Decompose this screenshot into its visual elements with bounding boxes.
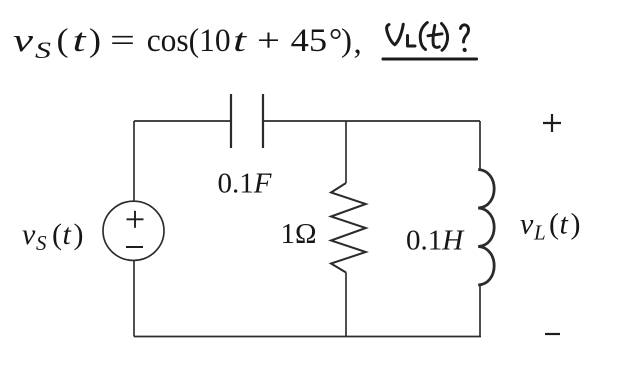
svg-text:1Ω: 1Ω [281,218,317,250]
svg-text:vL(t): vL(t) [520,208,581,245]
svg-text:vS(t): vS(t) [22,218,84,255]
svg-text:0.1F: 0.1F [218,168,272,200]
svg-text:vS(t)=cos(10t+45°),: vS(t)=cos(10t+45°), [13,23,362,63]
svg-text:0.1H: 0.1H [406,225,465,257]
